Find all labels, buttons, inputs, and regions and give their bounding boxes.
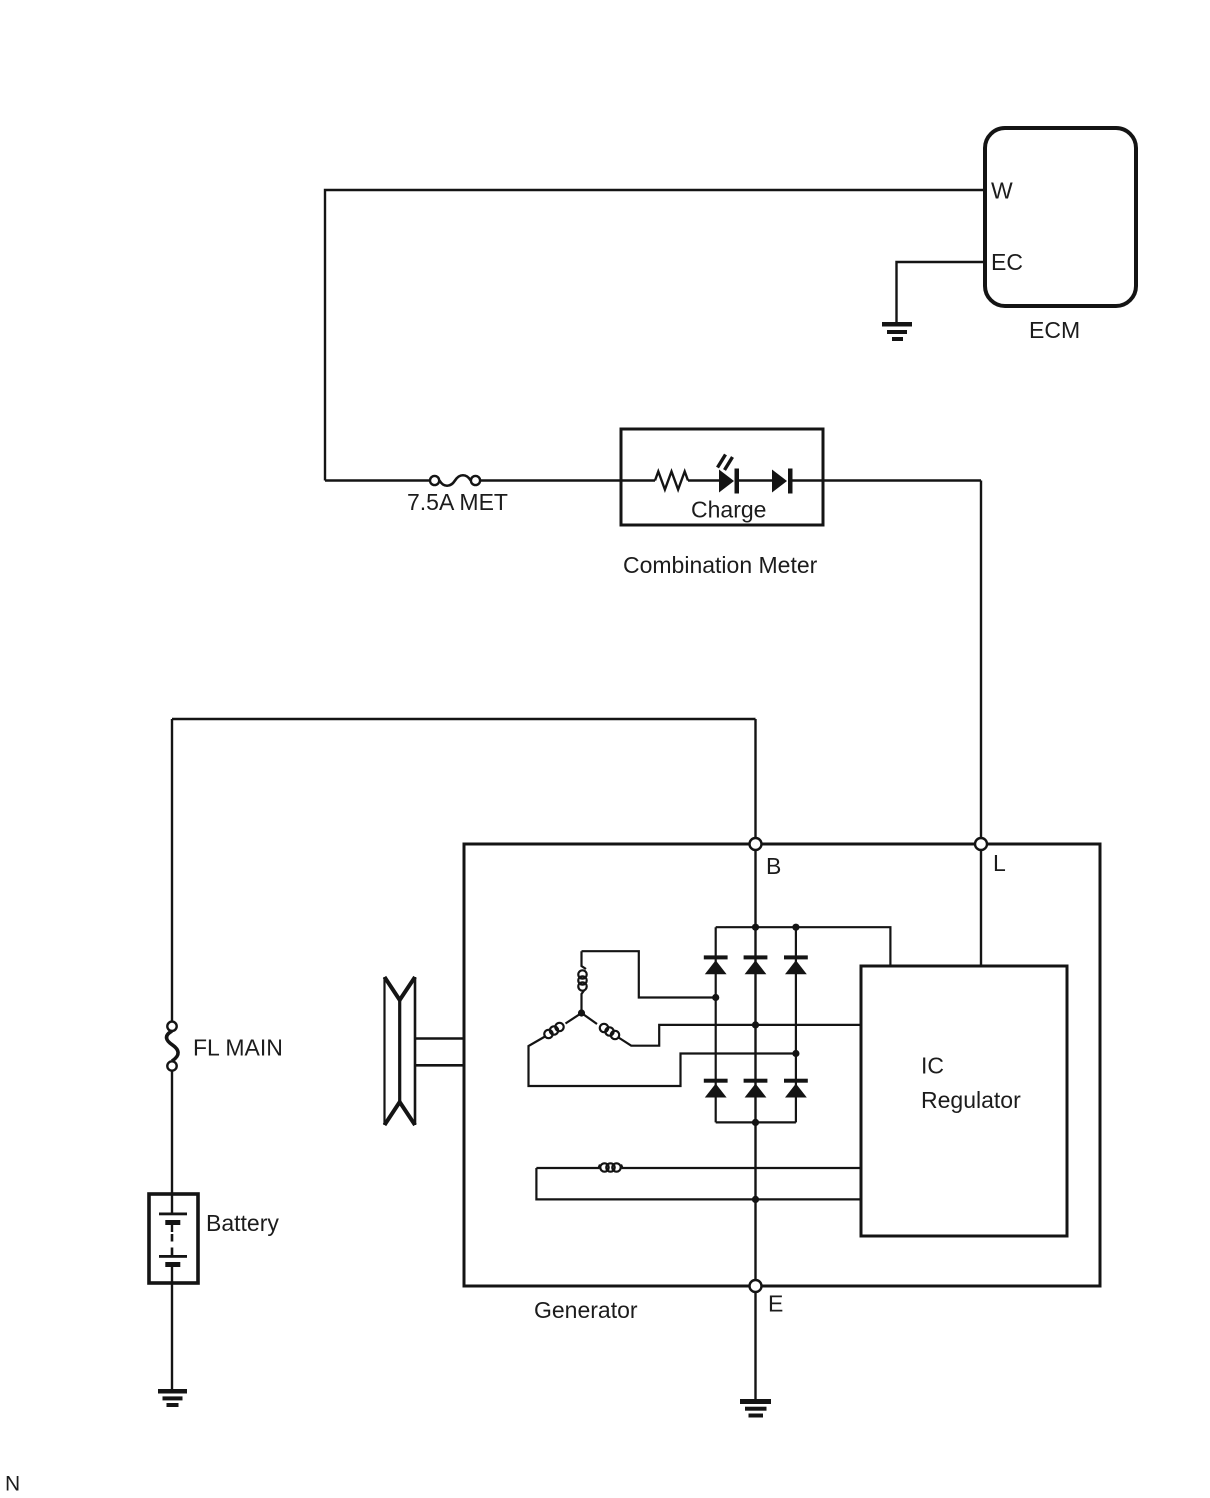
- top phase coil: [582, 951, 587, 969]
- wire left branch vertical: [171, 719, 173, 1022]
- svg-text:L: L: [993, 850, 1006, 876]
- diode D3: [704, 955, 728, 974]
- right leg: [795, 927, 797, 1122]
- wire diode to meter edge and to L line: [793, 479, 982, 481]
- wire fuse to meter: [480, 479, 655, 481]
- stator star winding: [529, 951, 862, 1086]
- IC regulator U2: [861, 966, 1067, 1236]
- combination meter box: [621, 429, 823, 525]
- diode D6: [704, 1079, 728, 1098]
- terminal E: [750, 1280, 762, 1292]
- svg-text:FL MAIN: FL MAIN: [193, 1035, 283, 1061]
- right phase coil: [582, 1013, 598, 1024]
- ECM U1: [985, 128, 1136, 306]
- fusible link FL MAIN: [167, 1022, 179, 1071]
- node right phase: [792, 1050, 799, 1057]
- diode D8: [784, 1079, 808, 1098]
- node bottom bus: [752, 1119, 759, 1126]
- wire W to top-left: [325, 190, 983, 481]
- diode D5: [784, 955, 808, 974]
- svg-text:Generator: Generator: [534, 1297, 638, 1323]
- svg-text:B: B: [766, 853, 781, 879]
- svg-text:EC: EC: [991, 249, 1023, 275]
- wire L vertical (meter to generator): [980, 481, 982, 839]
- top bus to regulator: [716, 927, 891, 966]
- rotor field winding: [536, 1163, 861, 1199]
- wire B vertical above generator: [754, 719, 756, 839]
- wire FL MAIN to battery: [171, 1071, 173, 1213]
- wire resistor to LED: [688, 479, 719, 481]
- terminal L: [975, 838, 987, 850]
- svg-text:Charge: Charge: [691, 497, 766, 523]
- node top bus right: [792, 924, 799, 931]
- diode D4: [744, 955, 768, 974]
- node stator neutral: [578, 1009, 585, 1016]
- svg-text:Combination Meter: Combination Meter: [623, 552, 818, 578]
- left phase coil: [566, 1013, 582, 1024]
- svg-text:E: E: [768, 1291, 783, 1317]
- wire EC to ground: [897, 262, 984, 322]
- wire L inside generator to IC regulator: [980, 850, 982, 967]
- svg-text:N: N: [5, 1473, 20, 1496]
- terminal B: [750, 838, 762, 850]
- resistor R1: [655, 472, 688, 490]
- wire from left vertical to fuse: [325, 479, 430, 481]
- wire top horizontal (battery feed to B): [172, 718, 756, 720]
- ground G3 (generator E): [740, 1399, 771, 1418]
- svg-text:7.5A MET: 7.5A MET: [407, 489, 508, 515]
- bottom bus: [716, 1121, 796, 1123]
- svg-text:IC: IC: [921, 1053, 944, 1079]
- diode D7: [744, 1079, 768, 1098]
- wire LED to diode: [739, 479, 772, 481]
- node left phase: [712, 994, 719, 1001]
- pulley: [385, 977, 416, 1125]
- battery BT1: [149, 1194, 198, 1283]
- fuse 7.5A MET: [430, 475, 480, 486]
- ground G1 (ECM EC): [882, 322, 912, 341]
- svg-text:Regulator: Regulator: [921, 1087, 1021, 1113]
- svg-text:ECM: ECM: [1029, 317, 1080, 343]
- rectifier bridge: [716, 927, 891, 1122]
- diode D2: [772, 469, 793, 494]
- LED D1 (charge lamp): [718, 455, 740, 494]
- wire E to ground: [754, 1292, 756, 1400]
- svg-text:W: W: [991, 178, 1013, 204]
- generator box: [464, 844, 1100, 1286]
- ground G2 (battery): [158, 1389, 187, 1407]
- wire top phase to left rectifier leg: [582, 951, 716, 997]
- node field-B junction: [752, 1196, 759, 1203]
- node mid phase: [752, 1021, 759, 1028]
- node top bus B: [752, 924, 759, 931]
- shaft wires: [415, 1037, 464, 1040]
- wire battery to ground: [171, 1283, 173, 1389]
- svg-text:Battery: Battery: [206, 1210, 279, 1236]
- left leg: [715, 927, 717, 1122]
- wire B inside generator through rectifier to E: [754, 850, 756, 1281]
